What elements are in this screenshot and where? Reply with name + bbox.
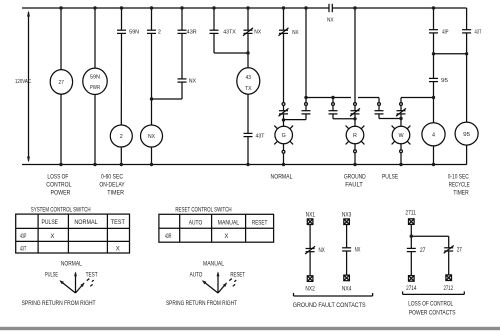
- 120VAC dimension arrow: [27, 11, 30, 163]
- terminal NX3: [344, 219, 350, 225]
- svg-text:27: 27: [457, 248, 463, 254]
- node bottom rung2: [120, 163, 123, 166]
- svg-text:NORMAL: NORMAL: [271, 175, 293, 181]
- svg-text:0-10 SEC: 0-10 SEC: [448, 175, 470, 181]
- node coil4 top: [432, 96, 435, 99]
- svg-text:MANUAL: MANUAL: [203, 262, 225, 268]
- node above lamp W: [399, 117, 402, 120]
- contact 95: [429, 78, 438, 81]
- svg-text:27: 27: [420, 248, 426, 254]
- node bus at 333: [331, 96, 334, 99]
- switch diagram MANUAL arrows: [202, 272, 236, 294]
- wire branch to right contact: [411, 236, 448, 248]
- caption 0-60 SEC ON-DELAY TIMER: [99, 175, 124, 197]
- wire top rail right segment: [332, 7, 466, 9]
- svg-text:43R: 43R: [165, 234, 172, 240]
- svg-text:LOSS OF CONTROL: LOSS OF CONTROL: [408, 302, 454, 308]
- wire contact to NX4: [346, 251, 348, 275]
- coil 4: [422, 123, 445, 146]
- svg-text:R: R: [353, 133, 357, 139]
- svg-text:4: 4: [432, 133, 435, 139]
- terminal 2712: [446, 275, 452, 281]
- svg-text:PULSE: PULSE: [42, 220, 59, 226]
- svg-text:43TX: 43TX: [223, 29, 236, 35]
- contact NX NO (ground fault 2): [342, 248, 351, 251]
- wire contact to NX2: [309, 252, 311, 276]
- svg-text:NX: NX: [148, 134, 155, 140]
- node top rungNX: [150, 6, 153, 9]
- node top rung59N: [93, 6, 96, 9]
- svg-text:120VAC: 120VAC: [15, 79, 31, 85]
- svg-text:NX: NX: [319, 248, 325, 254]
- contact 43R: [178, 30, 187, 33]
- terminal 2711: [409, 219, 415, 225]
- svg-text:NX: NX: [254, 29, 261, 35]
- node top rung43TX: [212, 6, 215, 9]
- node bottom rungG: [282, 163, 285, 166]
- wire NX1 to contact: [309, 225, 311, 249]
- node bottom rungNX: [150, 163, 153, 166]
- svg-text:TX: TX: [245, 86, 252, 92]
- svg-text:TIMER: TIMER: [453, 191, 469, 197]
- svg-text:X: X: [116, 246, 120, 252]
- node above lamp G: [282, 118, 285, 121]
- svg-text:NORMAL: NORMAL: [74, 220, 98, 226]
- wire bus segment right: [358, 97, 379, 99]
- svg-text:X: X: [224, 234, 228, 240]
- contact 43T (right): [462, 30, 471, 33]
- wire bottom rail: [22, 164, 467, 166]
- svg-text:43P: 43P: [442, 30, 449, 36]
- bottom gray band: [0, 327, 500, 330]
- node 43T junction: [465, 52, 468, 55]
- wire rung 379: [379, 98, 401, 119]
- wire contact to 2714: [410, 252, 412, 276]
- wire rung 59N PWR: [94, 8, 96, 165]
- svg-text:TEST: TEST: [111, 220, 125, 226]
- svg-text:27: 27: [59, 80, 64, 86]
- wire rung lamp W: [401, 98, 434, 165]
- svg-text:NORMAL: NORMAL: [61, 262, 83, 268]
- svg-text:PULSE: PULSE: [45, 272, 58, 278]
- node above lamp R: [353, 117, 356, 120]
- node bottom rung4: [432, 163, 435, 166]
- node bottom rungR: [353, 163, 356, 166]
- svg-text:AUTO: AUTO: [190, 272, 203, 278]
- contact NC above lamp G: [279, 108, 289, 116]
- coil 43TX: [237, 68, 260, 94]
- loss of control power contacts group: [403, 219, 465, 295]
- node bottom rung27: [59, 163, 62, 166]
- svg-text:FAULT: FAULT: [345, 183, 363, 189]
- svg-text:RESET: RESET: [252, 221, 268, 227]
- contact 2: [147, 30, 156, 33]
- contact NX (under 43R): [178, 79, 187, 82]
- switch circle above NO contact 306: [305, 103, 308, 106]
- contact NC above lamp R: [350, 108, 360, 116]
- contact 27 NO: [407, 248, 416, 251]
- svg-text:95: 95: [463, 132, 470, 138]
- svg-text:SPRING RETURN FROM RIGHT: SPRING RETURN FROM RIGHT: [166, 301, 237, 307]
- wire rung 43TX: [214, 8, 248, 53]
- svg-text:NX2: NX2: [305, 286, 315, 292]
- node bottom rung coil43TX: [246, 163, 249, 166]
- terminal NX2: [307, 276, 313, 282]
- contact 59N: [117, 30, 126, 33]
- node top rung43R: [180, 6, 183, 9]
- svg-text:PWR: PWR: [90, 85, 100, 91]
- svg-text:43R: 43R: [187, 29, 197, 35]
- caption LOSS OF CONTROL POWER: [46, 175, 72, 197]
- contact NO (left of lamp R): [329, 111, 338, 114]
- contact NX NC (top of G rung): [279, 28, 289, 36]
- wire rung 43R: [152, 8, 183, 99]
- svg-text:43T: 43T: [475, 30, 482, 36]
- switch circle below lamp G: [282, 150, 285, 153]
- svg-text:RESET CONTROL SWITCH: RESET CONTROL SWITCH: [175, 207, 231, 213]
- coil 2: [110, 125, 132, 147]
- node junction 43TX joins: [246, 51, 249, 54]
- contact 43P: [429, 30, 438, 33]
- switch circle above NC contact 401: [400, 103, 403, 106]
- switch circle above NC contact 355: [354, 103, 357, 106]
- switch circle above NO contact 333: [332, 103, 335, 106]
- svg-text:43T: 43T: [20, 246, 26, 252]
- lamp W: [392, 126, 411, 145]
- node top rungG: [282, 6, 285, 9]
- node top rung2: [120, 6, 123, 9]
- caption GROUND FAULT: [344, 175, 366, 189]
- svg-text:X: X: [50, 234, 54, 240]
- node mid rungNX: [150, 97, 153, 100]
- svg-text:NX3: NX3: [342, 212, 352, 218]
- svg-text:43: 43: [246, 75, 252, 81]
- wire rung coil2: [120, 8, 122, 165]
- svg-text:NX1: NX1: [306, 212, 316, 218]
- table SYSTEM CONTROL SWITCH grid: [16, 214, 130, 253]
- svg-text:ON-DELAY: ON-DELAY: [99, 183, 124, 189]
- bracket loss of control: [403, 291, 465, 294]
- node top rungR: [353, 6, 356, 9]
- bracket ground fault: [294, 293, 373, 296]
- svg-text:POWER: POWER: [51, 191, 72, 197]
- svg-text:G: G: [282, 133, 286, 139]
- svg-text:GROUND: GROUND: [344, 175, 366, 181]
- switch diagram NORMAL arrows: [59, 272, 93, 294]
- svg-text:W: W: [398, 133, 404, 139]
- contact 43T (below coil 43TX): [244, 133, 253, 136]
- switch circle above NO contact 379: [378, 103, 381, 106]
- svg-text:POWER CONTACTS: POWER CONTACTS: [409, 310, 456, 316]
- svg-text:59N: 59N: [90, 75, 100, 81]
- table RESET CONTROL SWITCH grid: [159, 214, 274, 242]
- node 43P/43T junction: [432, 52, 435, 55]
- caption 0-10 SEC RECYCLE TIMER: [448, 175, 470, 197]
- wire rung lamp G: [283, 8, 285, 165]
- svg-text:SPRING RETURN FROM RIGHT: SPRING RETURN FROM RIGHT: [22, 301, 96, 307]
- svg-text:PULSE: PULSE: [382, 175, 398, 181]
- coil NX: [141, 125, 163, 147]
- lamp R: [346, 126, 365, 145]
- wire rung coil43TX: [247, 8, 249, 165]
- svg-text:TIMER: TIMER: [107, 191, 124, 197]
- contact NC above lamp W: [396, 108, 406, 116]
- svg-text:MANUAL: MANUAL: [218, 221, 240, 227]
- switch circle below lamp R: [354, 150, 357, 153]
- node top rung43P: [432, 6, 435, 9]
- node top rung coil43TX: [246, 6, 249, 9]
- svg-text:AUTO: AUTO: [189, 221, 203, 227]
- coil 59N PWR: [83, 68, 107, 94]
- svg-text:2714: 2714: [406, 286, 417, 292]
- node 2711 branch: [410, 235, 413, 238]
- svg-text:GROUND FAULT CONTACTS: GROUND FAULT CONTACTS: [293, 303, 366, 309]
- svg-text:NX: NX: [189, 79, 197, 85]
- wire rung coilNX: [151, 8, 153, 165]
- svg-text:RESET: RESET: [230, 272, 245, 278]
- svg-text:SYSTEM CONTROL SWITCH: SYSTEM CONTROL SWITCH: [31, 207, 91, 213]
- contact NX NC (top of 43TX coil rung): [243, 28, 253, 36]
- contact NX NC (ground fault 1): [305, 246, 315, 254]
- wire rung 43P / coil 4: [433, 8, 435, 165]
- wire top rail left segment: [22, 7, 329, 9]
- svg-text:TEST: TEST: [86, 272, 98, 278]
- svg-text:2: 2: [158, 29, 161, 35]
- svg-text:NX: NX: [292, 30, 299, 36]
- terminal 2714: [409, 276, 415, 282]
- switch circle below lamp W: [400, 150, 403, 153]
- node top rung27: [59, 6, 62, 9]
- node bottom rungW: [399, 163, 402, 166]
- svg-text:LOSS OF: LOSS OF: [47, 175, 68, 181]
- node top rung306: [304, 6, 307, 9]
- svg-text:95: 95: [441, 78, 448, 84]
- wire rung 306 feed: [284, 8, 307, 120]
- terminal NX1: [307, 219, 313, 225]
- node bus at 306: [304, 96, 307, 99]
- svg-text:CONTROL: CONTROL: [46, 183, 72, 189]
- wire contact to 2712: [448, 251, 450, 275]
- svg-text:RECYCLE: RECYCLE: [449, 183, 470, 189]
- wire rung lamp R: [354, 8, 356, 165]
- svg-text:NX: NX: [355, 247, 361, 253]
- wire rung 333: [333, 98, 355, 119]
- terminal NX4: [344, 275, 350, 281]
- svg-text:0-60 SEC: 0-60 SEC: [101, 175, 124, 181]
- switch circle above G NC contact: [282, 103, 285, 106]
- wire bus segment left: [306, 97, 351, 99]
- lamp G: [274, 126, 293, 145]
- coil 95: [455, 122, 478, 145]
- svg-text:NX4: NX4: [342, 286, 352, 292]
- wire 2711 down: [410, 224, 412, 248]
- svg-text:2711: 2711: [405, 211, 416, 217]
- wire NX3 to contact: [346, 225, 348, 248]
- contact 43TX: [210, 30, 219, 33]
- contact NX (series in top rail): [329, 4, 332, 12]
- contact 27 NC: [444, 246, 454, 254]
- wire rung 27: [60, 8, 62, 165]
- ground fault contacts group: [294, 219, 373, 296]
- coil 27: [50, 70, 72, 95]
- svg-text:59N: 59N: [129, 29, 139, 35]
- svg-text:43P: 43P: [20, 234, 26, 240]
- node bottom rung59N: [93, 163, 96, 166]
- svg-text:NX: NX: [327, 17, 334, 23]
- svg-text:43T: 43T: [256, 133, 266, 139]
- svg-text:2712: 2712: [443, 286, 453, 292]
- contact NO (left of lamp W): [375, 111, 384, 114]
- contact NO above lamp G right branch: [302, 111, 311, 114]
- svg-text:2: 2: [120, 134, 123, 140]
- wire rung 43T / coil 95: [434, 8, 467, 165]
